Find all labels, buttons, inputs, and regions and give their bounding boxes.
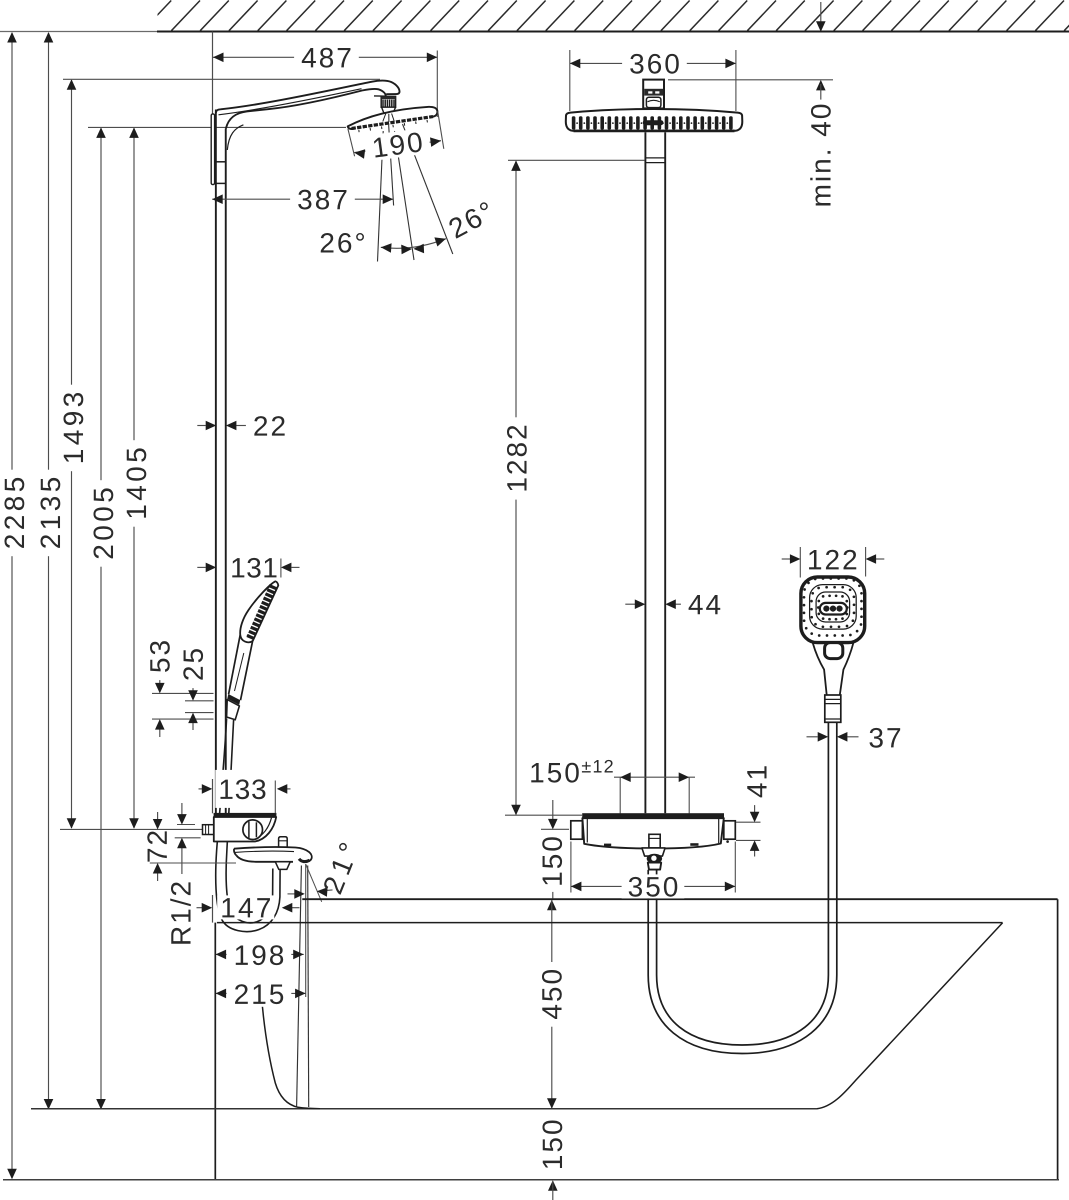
arrow up 1405 (129, 127, 139, 137)
spray stripe band (572, 116, 733, 129)
arc arrow left end (381, 243, 392, 253)
arrow up 2005 (96, 127, 106, 137)
reference line mixer top (1493/1405/72) (60, 828, 214, 830)
head bottom edge thick (574, 130, 735, 133)
arrow up 2135 (44, 32, 54, 43)
spray line mid-right (395, 131, 415, 260)
dot on handshower (247, 634, 250, 637)
dimension 2135 (ceiling to tub bottom) (48, 33, 50, 1109)
arrow 44 left (635, 599, 646, 609)
arc arrow right end (434, 237, 446, 246)
label 26 right (443, 197, 499, 242)
label 147 (217, 895, 274, 919)
mixer body inner face line (255, 818, 272, 840)
dimension 147 (197, 907, 204, 909)
nozzle ticks below face (359, 120, 428, 132)
spout left end (234, 849, 236, 856)
label 22 (246, 413, 293, 439)
arrow 21deg at slant (317, 887, 328, 897)
arrow right 387 (383, 194, 394, 204)
tub left outer wall (214, 923, 216, 1180)
label R1/2 (170, 882, 191, 943)
label 150 bottom (539, 1113, 565, 1178)
front pipe (644, 132, 646, 813)
inner ring 2 (816, 592, 850, 622)
handshower face stripes (247, 586, 276, 639)
label pm12 (579, 757, 615, 776)
spray line left (378, 131, 384, 262)
label 25 (180, 641, 206, 688)
arrow 147 right (282, 903, 293, 913)
grip dark band (227, 694, 240, 705)
label 2135 (37, 470, 63, 557)
dimension 133 (199, 788, 204, 790)
wall line segments (212, 32, 214, 114)
pipe joint ticks (645, 157, 665, 159)
arrow 190 left (354, 149, 365, 159)
ref line nipple top (177, 824, 195, 826)
ball joint nut (381, 96, 395, 107)
extension 350 right (734, 842, 736, 893)
reference line head top (2005/1405) (88, 126, 346, 128)
arc arrow mid pointing left (413, 244, 424, 254)
front view overhead head (566, 109, 743, 131)
21 deg slant line (306, 865, 322, 902)
thermostat right cap (724, 821, 736, 839)
label 350 (622, 874, 685, 898)
arrow right 360 (725, 59, 736, 69)
extension line 360 right (735, 50, 737, 111)
label 1282 (504, 417, 530, 499)
label 150 thermo (540, 831, 564, 892)
mixer body (214, 817, 276, 842)
handshower front head outline (801, 577, 865, 643)
extension line 487 right (436, 51, 438, 118)
arrow down 2135 (44, 1099, 54, 1110)
26 degree spray angle arc (381, 239, 446, 249)
hang hole (825, 643, 843, 659)
extension 122 right (865, 547, 867, 577)
tub inner bottom (31, 1108, 817, 1110)
arrow up 2285 (7, 32, 17, 43)
arrow down 2285 (7, 1169, 17, 1180)
extension 133 right (274, 781, 276, 814)
label min 40 (808, 100, 834, 212)
ref line spout bottom (150, 862, 236, 864)
extension 150pm left (619, 777, 621, 813)
ref line pipe joint (508, 159, 645, 161)
arrow 37 left (818, 732, 829, 742)
label 131 (228, 554, 280, 580)
water stream lines (297, 866, 302, 1108)
label 41 (744, 758, 770, 805)
mini spray fan at joint exit (383, 114, 386, 122)
front hose outer (648, 723, 837, 1054)
arrow left 360 (570, 59, 581, 69)
tub right outer wall (1057, 899, 1059, 1180)
label 21deg (322, 842, 359, 895)
arc arrow mid pointing right (401, 245, 412, 255)
arrow down 1405 (129, 818, 139, 829)
arrow up 150 at floor (548, 1180, 558, 1191)
dimension 487 (wall to head front) (213, 56, 437, 58)
arrow 215 right (295, 989, 306, 999)
shower arm bottom edge and elbow (226, 89, 386, 129)
label 26 left (315, 230, 369, 256)
arrow down 53 (155, 683, 165, 694)
arrow up 25 (188, 713, 198, 724)
spout outlet dark (299, 859, 310, 862)
label 198 (227, 942, 292, 968)
reference line head top front view (668, 79, 833, 81)
dimension 2005 (head top to tub bottom) (100, 128, 102, 1108)
arrow 37 right (837, 732, 848, 742)
label 1493 (60, 385, 86, 472)
label 53 (147, 633, 173, 680)
label 215 (227, 981, 292, 1007)
handle connector (825, 695, 841, 722)
extension 122 left (799, 547, 801, 578)
shower arm top edge and nose (216, 81, 400, 113)
label 72 (147, 831, 167, 861)
spray line far right (403, 124, 453, 254)
arrow 131 left (206, 563, 217, 573)
riser pipe left view (215, 110, 217, 814)
nozzle dots (803, 577, 863, 637)
arrow 350 right (725, 882, 736, 892)
label 2005 (90, 480, 116, 567)
spout inner line (235, 851, 294, 852)
ref line 25 top (185, 700, 214, 702)
dimension 37 (807, 736, 818, 738)
spout (234, 847, 312, 861)
dimension 1405 (head top to mixer top) (133, 128, 135, 828)
arrow 22 left (206, 421, 217, 431)
arrow down 1282 (511, 805, 521, 816)
mixer knob (243, 820, 263, 840)
arrow 131 right (281, 563, 292, 573)
handshower head side view (240, 581, 278, 642)
outlet ball dark (647, 854, 662, 864)
arm inner top highlight line (219, 89, 362, 115)
dimension 41 (736, 821, 761, 823)
arrow down 41 (750, 812, 760, 823)
ref line 53 top (152, 692, 214, 694)
dimension 387 (wall to spray center) (212, 198, 393, 200)
stripe band dots (576, 122, 728, 124)
label 450 (539, 962, 565, 1027)
tub inner left wall side view (261, 984, 321, 1109)
arrow down min40 at ceiling (816, 21, 826, 32)
label 150pm (522, 759, 587, 785)
ref line 25 bottom (185, 712, 214, 714)
extension 150pm right (688, 777, 690, 813)
label 44 (681, 591, 728, 617)
extension 190 right (438, 111, 444, 149)
label 122 (802, 546, 863, 572)
center pill (643, 120, 664, 125)
arrow 122 left (790, 554, 801, 564)
joint cone (382, 107, 396, 113)
arrow up min40 at head top (816, 80, 826, 91)
arm flange (374, 95, 386, 97)
label 1405 (123, 440, 149, 527)
arrow up 53 (155, 719, 165, 730)
arrow 44 right (665, 599, 676, 609)
wall mounting plate (211, 114, 214, 185)
label 387 (290, 186, 355, 212)
arrow up 72 (153, 863, 163, 874)
thermostat left cap (571, 821, 583, 839)
ceiling line (0, 31, 165, 33)
label 2285 (1, 470, 27, 557)
21 deg arrows (288, 893, 297, 895)
dimension 44 (pipe width) (625, 603, 636, 605)
pipe sleeve at wall bracket (216, 161, 226, 163)
arrow 122 right (866, 554, 877, 564)
arrow 21deg at vertical (294, 889, 305, 899)
handshower grip (229, 635, 241, 694)
arrow right 487 (427, 53, 438, 63)
arrow 133 right (277, 784, 288, 794)
overhead shower head side view (348, 107, 438, 129)
handshower hose side view inner (226, 720, 273, 923)
arrow 147 left (202, 903, 213, 913)
spout bottom edge (236, 855, 293, 862)
tub inner right wall (817, 923, 1003, 1109)
extension line 360 left (569, 50, 571, 111)
ref tick 829 (541, 828, 569, 830)
ref line thermostat top left (505, 814, 582, 816)
underside stop screws (604, 844, 611, 847)
label 37 (861, 724, 908, 750)
arrow 198 right (293, 950, 304, 960)
extension 350 left (570, 842, 572, 893)
arrow 133 left (202, 784, 213, 794)
arrow down 150 thermo (548, 819, 558, 830)
arrow down 2005 (96, 1099, 106, 1110)
inner ring 1 (810, 585, 857, 630)
hose connector cone (227, 700, 240, 720)
arrow up 450 at rim (547, 900, 557, 911)
arrow 215 left (216, 989, 227, 999)
dimension 215 (216, 992, 306, 994)
handshower inner line (246, 586, 271, 615)
dimension min.40 (820, 2, 822, 24)
floor line (3, 1179, 1059, 1181)
arrow 22 right (226, 421, 237, 431)
center pill (820, 603, 847, 615)
dimension 150+-12 supply spacing (614, 776, 695, 778)
dimension 198 (216, 953, 304, 955)
arrow up 1282 (511, 160, 521, 171)
ref line nipple bottom (175, 837, 201, 839)
extension 190 left (348, 129, 355, 157)
arm inner elbow line (227, 125, 243, 150)
dimension 22 (pipe dia) (197, 425, 206, 427)
dimension 131 (pipe to handshower) (197, 566, 206, 568)
arrow up 1493 (67, 79, 77, 90)
arrow left 150pm (620, 772, 631, 782)
arrow 198 left (216, 950, 227, 960)
extension line spout outlet vertical (305, 864, 307, 997)
dimension 360 (front head width) (570, 62, 736, 64)
label 190 (363, 127, 431, 161)
outlet knob (649, 834, 660, 848)
label 487 (294, 44, 359, 70)
handshower hose side view outer (216, 719, 280, 932)
diverter knob on spout (279, 837, 288, 848)
reference line arm top (1493) (63, 78, 380, 80)
arrow left 487 (213, 53, 224, 63)
outlet hose connector (648, 863, 661, 870)
mixer top bar (214, 813, 277, 817)
dimension 1493 (arm top to mixer top) (71, 80, 73, 828)
thermostat body (582, 818, 723, 848)
arrow right 150pm (679, 772, 690, 782)
front hose inner (657, 723, 829, 1046)
arrow down R12 (177, 814, 187, 825)
hose funnel below spout (275, 862, 290, 870)
handshower neck (813, 643, 827, 695)
mixer supply nipple R1/2 (203, 825, 214, 835)
tub rim inner line (217, 922, 1003, 924)
arrow down 72 (153, 819, 163, 830)
extension 131 right (280, 559, 282, 578)
front view connector block (643, 80, 664, 109)
thermostat top bar (582, 813, 724, 818)
outlet housing (642, 848, 665, 856)
label 360 (622, 50, 687, 76)
head spray face (thick) (352, 117, 434, 129)
arrow down 1493 (67, 818, 77, 829)
tub rim top line (302, 898, 1057, 900)
arrow 350 left (571, 882, 582, 892)
dimension 2285 (ceiling to floor) (11, 33, 13, 1178)
arrow up R12 (177, 838, 187, 849)
arrow down 25 (188, 690, 198, 701)
arrow 190 right (430, 137, 441, 147)
spray line center (387 ref) (389, 124, 394, 206)
arrow down 450 at tub bottom (547, 1098, 557, 1109)
label 133 (215, 770, 269, 808)
arrow left 387 (212, 194, 223, 204)
ref line 53 bottom (152, 718, 214, 720)
arrow up 41 (750, 840, 760, 851)
